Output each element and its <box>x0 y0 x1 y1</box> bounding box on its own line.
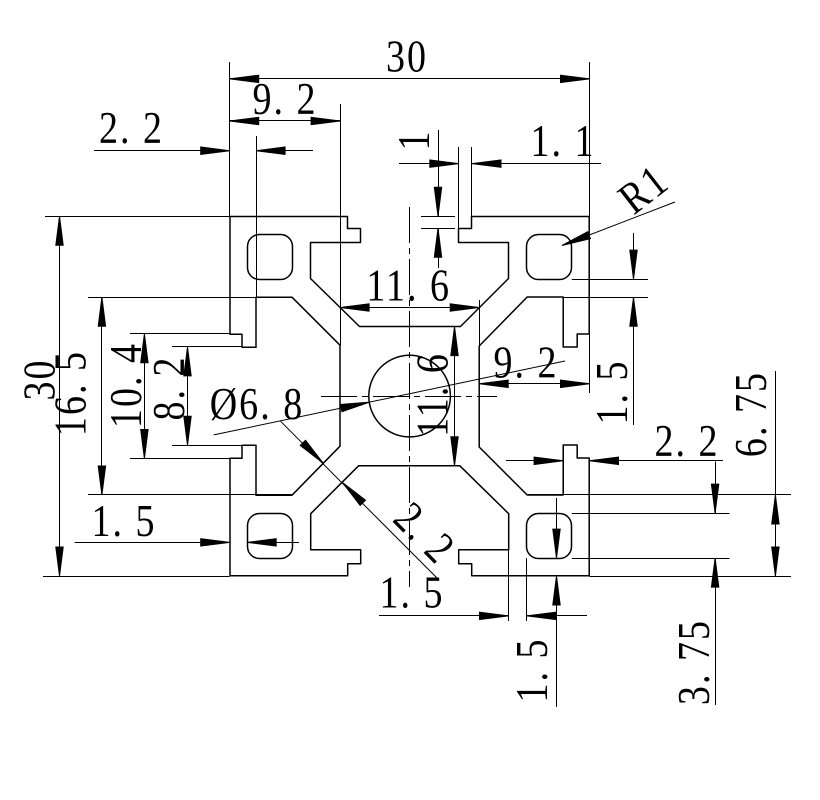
ext line left inner wall up <box>256 136 258 297</box>
ext line left surface opening top <box>130 333 230 335</box>
dimension 30 left <box>56 216 63 576</box>
svg-text:1: 1 <box>390 129 440 150</box>
ext line right cavity top <box>563 297 648 299</box>
dimension 8.2 left <box>184 347 191 445</box>
ext line right cavity bottom <box>528 494 791 496</box>
dimension 2.2 web diagonal <box>280 421 439 580</box>
svg-text:6. 75: 6. 75 <box>727 371 777 457</box>
ext line top edge left <box>45 216 230 218</box>
leader R1 <box>562 202 675 246</box>
ext line top edge level for dim 1 <box>421 216 455 218</box>
ext line mouth right wall up <box>458 147 460 228</box>
dimension 1.5 bottom right vertical <box>553 498 560 707</box>
dimension 1.1 lip <box>399 160 601 167</box>
dimension 3.75 right <box>711 462 718 706</box>
svg-text:2. 2: 2. 2 <box>99 104 164 154</box>
dimension 1.5 bottom <box>379 612 587 619</box>
ext line right inner wall down <box>563 445 565 492</box>
dimension 1.5 right top <box>630 233 637 425</box>
svg-text:1. 1: 1. 1 <box>530 117 595 167</box>
svg-text:16. 5: 16. 5 <box>47 350 97 436</box>
svg-text:30: 30 <box>386 33 428 83</box>
ext line core right edge up <box>479 300 481 346</box>
svg-text:2. 2: 2. 2 <box>654 417 719 467</box>
ext line left cavity bottom <box>88 494 292 496</box>
dimension 11.6 core width <box>340 304 479 311</box>
profile boundary right T-slot <box>479 216 589 576</box>
dimension 11.6 core height <box>451 327 458 466</box>
ext line TR hole bottom <box>572 279 648 281</box>
dimension 10.4 left <box>141 334 148 459</box>
dimension 2.2 right lip <box>506 457 723 464</box>
ext line core left edge up <box>340 104 342 346</box>
dimension 1 step depth <box>434 130 441 268</box>
ext line bottom cavity right down <box>508 550 510 621</box>
ext line surface opening right up <box>471 147 473 216</box>
svg-text:8. 2: 8. 2 <box>145 355 195 420</box>
vertical centerline <box>409 207 411 587</box>
ext line left edge above <box>229 62 231 216</box>
leader diameter 6.8 <box>214 361 565 435</box>
svg-text:9. 2: 9. 2 <box>252 75 317 125</box>
svg-text:3. 75: 3. 75 <box>670 619 720 705</box>
svg-text:Ø6. 8: Ø6. 8 <box>210 380 305 430</box>
ext line BR hole bottom <box>572 558 730 560</box>
ext line right edge across slot <box>589 334 591 393</box>
ext line left mouth bottom <box>172 445 242 447</box>
dimension 30 top <box>230 75 590 82</box>
ext line left mouth top <box>172 346 242 348</box>
svg-text:1. 5: 1. 5 <box>508 637 558 702</box>
dimension 9.2 middle right <box>479 380 589 387</box>
ext line bottom edge right <box>590 576 792 578</box>
svg-text:1. 5: 1. 5 <box>588 359 638 424</box>
svg-text:11. 6: 11. 6 <box>409 352 459 437</box>
profile boundary bottom T-slot <box>230 466 590 576</box>
ext line BR hole left down <box>526 558 528 621</box>
svg-text:1. 5: 1. 5 <box>379 569 444 619</box>
svg-text:9. 2: 9. 2 <box>493 339 558 389</box>
svg-text:11. 6: 11. 6 <box>366 262 451 312</box>
ext line bottom edge left <box>43 576 230 578</box>
profile outer boundary with top T-slot <box>230 217 590 327</box>
dimension 1.5 left bottom <box>75 539 299 546</box>
ext line left cavity top <box>88 297 292 299</box>
profile boundary left T-slot <box>230 216 340 576</box>
dimension 6.75 right <box>772 371 779 576</box>
corner hole top-right (rounded square R1) <box>527 235 572 280</box>
horizontal centerline <box>321 396 497 398</box>
dimension 16.5 left <box>98 297 105 495</box>
ext line right edge above <box>589 62 591 216</box>
ext line step floor level for dim 1 <box>421 228 455 230</box>
dimension 9.2 top <box>230 117 340 124</box>
center bore circle Ø6.8 <box>369 355 451 437</box>
dimension 2.2 top-left <box>94 147 313 154</box>
ext line BR hole top <box>572 513 730 515</box>
corner hole bottom-right (rounded square R1) <box>527 514 572 559</box>
ext line left surface opening bottom <box>130 458 230 460</box>
svg-text:1. 5: 1. 5 <box>91 497 156 547</box>
corner hole bottom-left (rounded square R1) <box>248 514 293 559</box>
corner hole top-left (rounded square R1) <box>248 235 293 280</box>
